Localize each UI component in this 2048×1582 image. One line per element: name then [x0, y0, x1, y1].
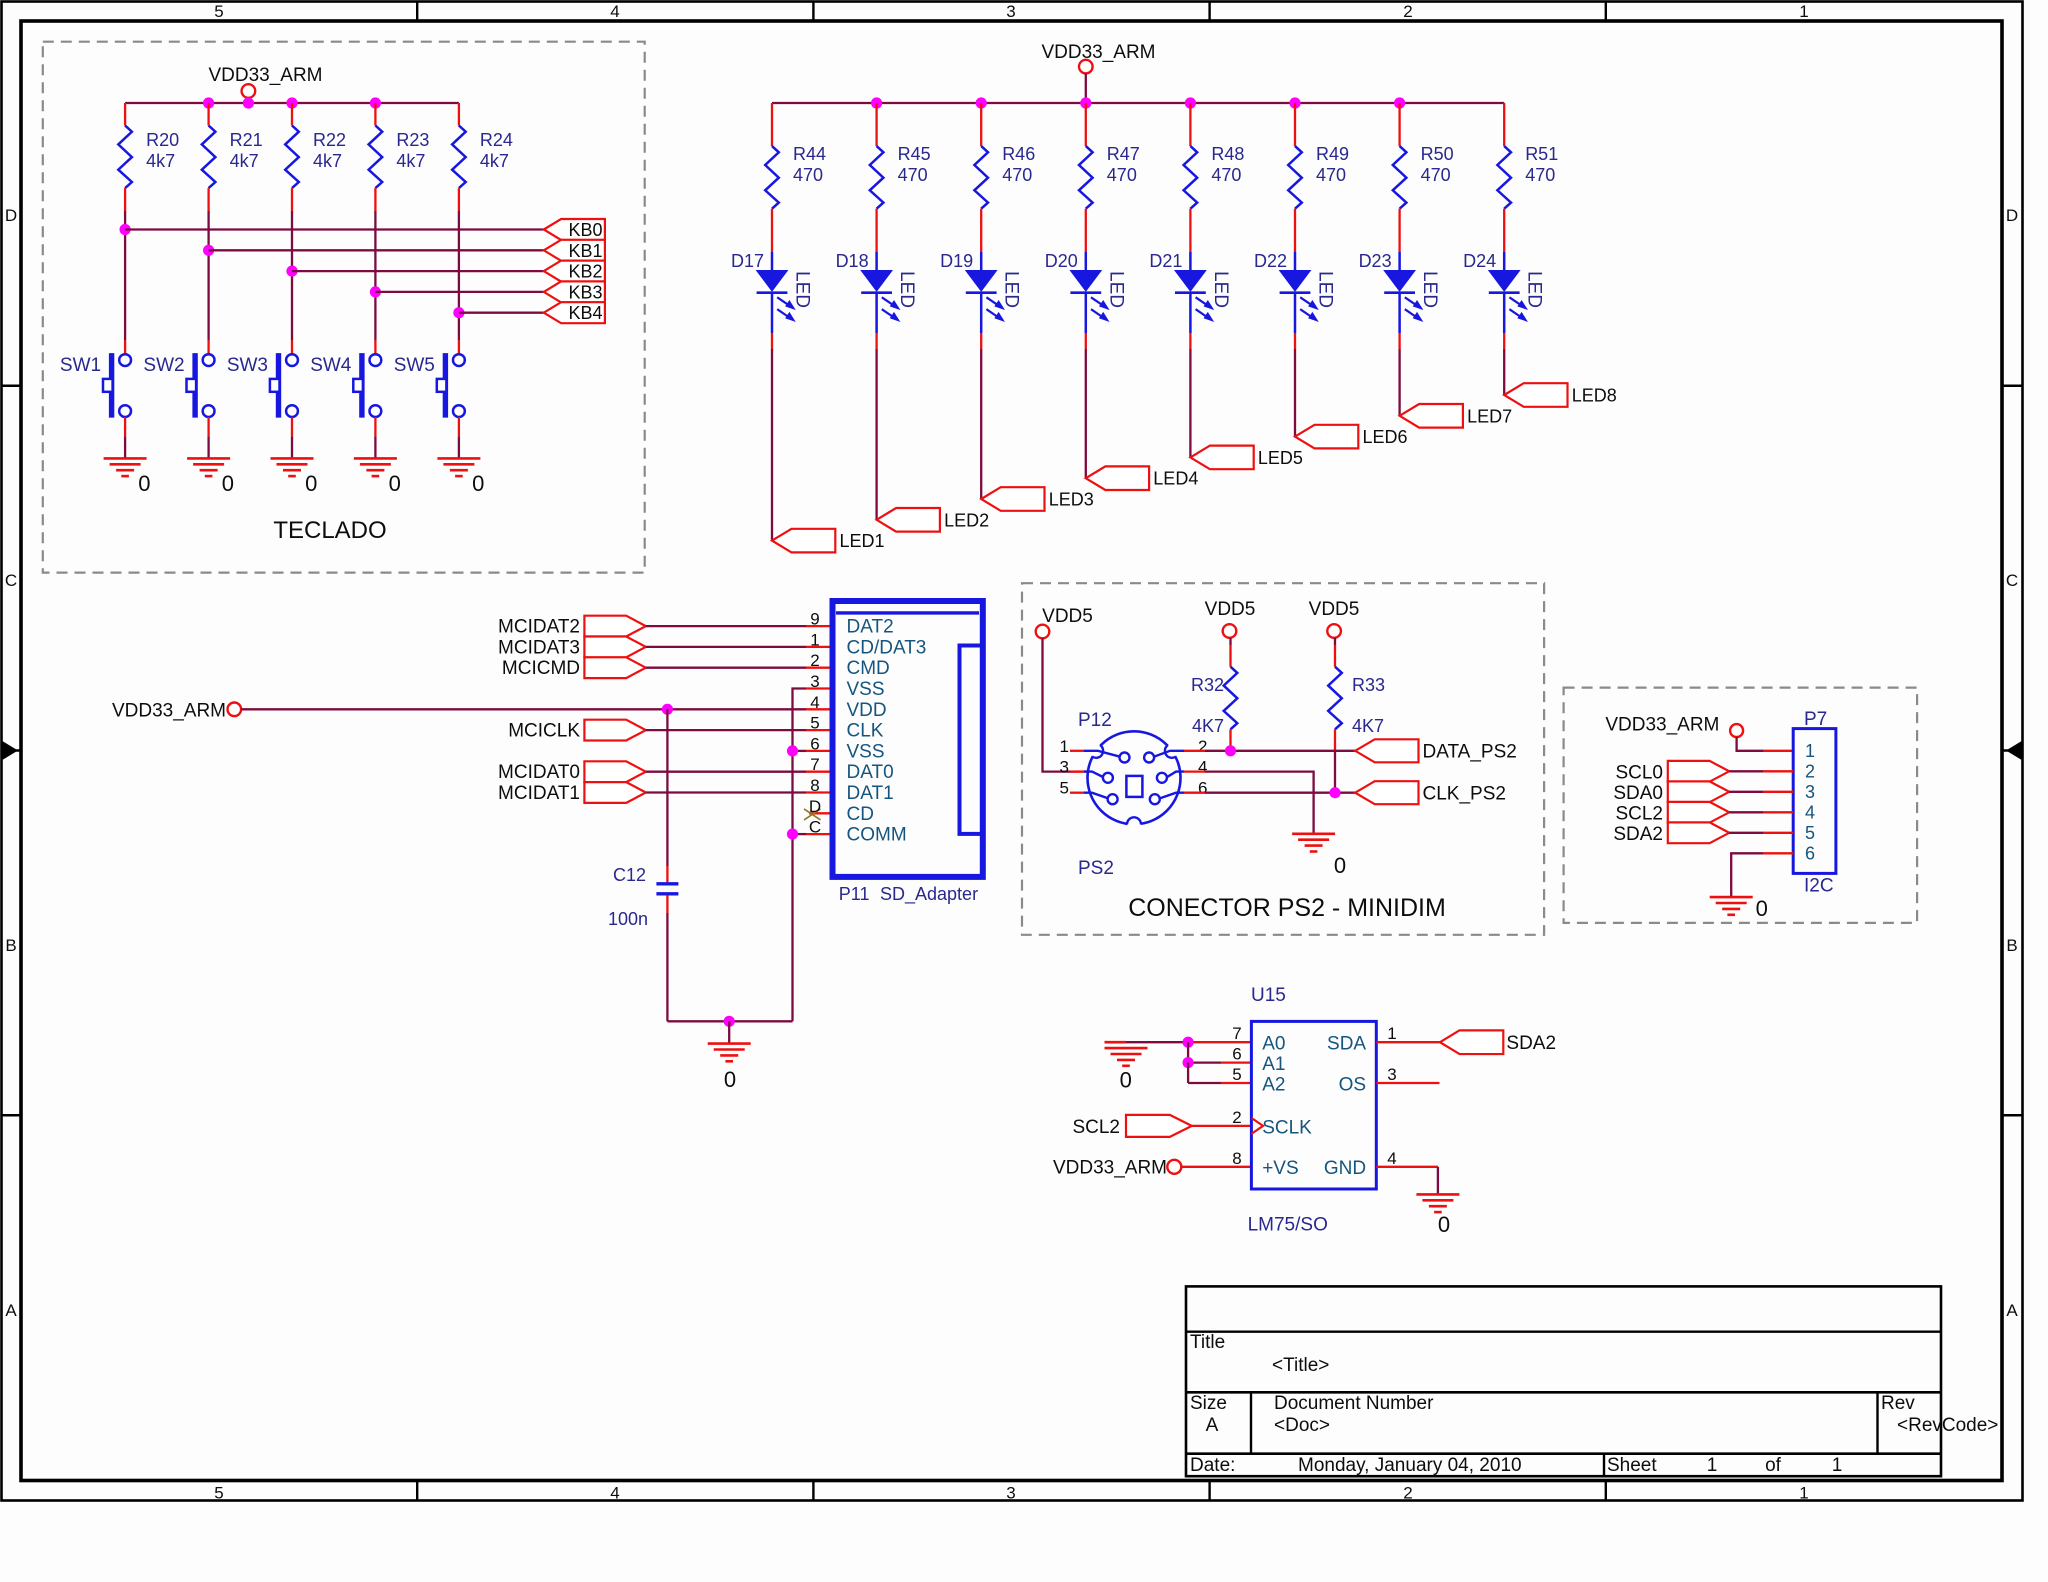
wire D20 to flag — [1085, 333, 1087, 349]
wire COMM pinC — [806, 833, 833, 835]
svg-text:LED6: LED6 — [1363, 427, 1408, 447]
wire stub R51 top — [1503, 103, 1505, 146]
svg-text:470: 470 — [1525, 165, 1555, 185]
svg-text:5: 5 — [1232, 1065, 1241, 1084]
svg-text:P12: P12 — [1078, 710, 1112, 731]
svg-text:KB1: KB1 — [568, 241, 602, 261]
net flag KB1 — [544, 240, 605, 261]
wire SW4 to ground — [374, 417, 376, 436]
svg-text:1: 1 — [1805, 741, 1815, 761]
svg-text:4K7: 4K7 — [1192, 716, 1224, 736]
svg-text:SW2: SW2 — [143, 355, 184, 376]
svg-text:DATA_PS2: DATA_PS2 — [1423, 742, 1517, 763]
wire SDA2 to P7 — [1729, 832, 1763, 834]
svg-text:DAT1: DAT1 — [847, 783, 894, 804]
ground — [1416, 1193, 1459, 1196]
svg-text:Date:: Date: — [1190, 1455, 1235, 1476]
resistor R45 — [870, 146, 884, 209]
junction — [243, 97, 254, 108]
svg-text:A0: A0 — [1262, 1034, 1285, 1055]
wire stub CD pinD — [809, 812, 833, 814]
svg-text:2: 2 — [1403, 2, 1412, 21]
wire SW5 to ground — [458, 417, 460, 436]
wire net KB2 — [292, 270, 544, 272]
svg-text:SW1: SW1 — [60, 355, 101, 376]
svg-text:0: 0 — [389, 471, 401, 496]
svg-text:D20: D20 — [1045, 251, 1078, 271]
svg-text:4K7: 4K7 — [1352, 716, 1384, 736]
svg-text:Size: Size — [1190, 1393, 1227, 1414]
svg-text:1: 1 — [810, 630, 819, 649]
svg-text:VDD33_ARM: VDD33_ARM — [1053, 1158, 1167, 1179]
wire R47 to D20 — [1085, 209, 1087, 252]
svg-text:R24: R24 — [480, 130, 513, 150]
junction node KB1 — [203, 245, 214, 256]
svg-text:SDA0: SDA0 — [1613, 783, 1663, 804]
svg-text:SCL2: SCL2 — [1072, 1117, 1120, 1138]
svg-text:A: A — [5, 1301, 17, 1320]
svg-text:0: 0 — [222, 471, 234, 496]
svg-text:R44: R44 — [793, 144, 826, 164]
svg-text:LED: LED — [1315, 271, 1336, 308]
junction — [1080, 97, 1091, 108]
wire VDD5 to P12 pin3 — [1043, 638, 1076, 771]
wire SDA to flag — [1376, 1041, 1440, 1043]
svg-text:470: 470 — [1421, 165, 1451, 185]
wire net KB3 — [375, 291, 543, 293]
svg-text:DAT0: DAT0 — [847, 762, 894, 783]
wire R44 to D17 — [771, 209, 773, 252]
svg-text:100n: 100n — [608, 909, 648, 929]
junction — [1329, 787, 1340, 798]
junction — [662, 704, 673, 715]
wire R32 to DATA_PS2 — [1229, 729, 1231, 751]
svg-text:VDD5: VDD5 — [1309, 599, 1360, 620]
svg-text:3: 3 — [1006, 1484, 1015, 1503]
net flag LED3 — [981, 487, 1044, 511]
wire D23 to flag — [1398, 333, 1400, 349]
wire OS stub — [1376, 1082, 1439, 1084]
net flag LED4 — [1086, 466, 1149, 490]
resistor R22 — [285, 126, 299, 189]
svg-text:P11: P11 — [839, 884, 870, 904]
junction — [724, 1016, 735, 1027]
svg-text:4k7: 4k7 — [396, 151, 425, 171]
svg-text:4: 4 — [610, 2, 619, 21]
wire stub R48 top — [1189, 103, 1191, 146]
wire stub — [1070, 792, 1084, 794]
wire stub R50 top — [1398, 103, 1400, 146]
svg-text:VDD33_ARM: VDD33_ARM — [1605, 715, 1719, 736]
svg-text:5: 5 — [214, 2, 223, 21]
svg-text:VSS: VSS — [847, 741, 885, 762]
svg-text:MCIDAT2: MCIDAT2 — [498, 617, 580, 638]
svg-text:4: 4 — [1387, 1149, 1396, 1168]
junction — [1225, 745, 1236, 756]
svg-text:A1: A1 — [1262, 1054, 1285, 1075]
svg-text:Sheet: Sheet — [1607, 1455, 1657, 1476]
svg-text:MCIDAT1: MCIDAT1 — [498, 783, 580, 804]
wire MCIDAT0 to P11 pin7 — [646, 771, 806, 773]
junction — [976, 97, 987, 108]
junction — [203, 97, 214, 108]
svg-text:8: 8 — [810, 776, 819, 795]
wire GND to ground — [1376, 1166, 1438, 1168]
wire ground stub — [728, 1021, 730, 1043]
svg-text:0: 0 — [1120, 1068, 1132, 1093]
wire stub — [1070, 770, 1084, 772]
svg-text:VDD: VDD — [847, 700, 887, 721]
resistor R44 — [765, 146, 779, 209]
svg-text:A2: A2 — [1262, 1074, 1285, 1095]
wire R45 to D18 — [875, 209, 877, 252]
wire stub R46 top — [980, 103, 982, 146]
wire stub R47 top — [1085, 103, 1087, 146]
svg-text:A: A — [2006, 1301, 2018, 1320]
resistor R48 — [1184, 146, 1198, 209]
net flag DATA_PS2 — [1355, 739, 1418, 762]
junction — [1289, 97, 1300, 108]
ground — [1710, 896, 1753, 899]
net flag CLK_PS2 — [1355, 781, 1418, 804]
wire VDD33_ARM to P11 pin4 — [241, 708, 806, 710]
svg-text:LED: LED — [1001, 271, 1022, 308]
svg-text:LED: LED — [1524, 271, 1545, 308]
svg-text:470: 470 — [898, 165, 928, 185]
resistor R33 — [1334, 638, 1336, 646]
wire net DATA_PS2 — [1205, 750, 1355, 752]
svg-text:4: 4 — [1198, 758, 1207, 777]
net flag KB2 — [544, 261, 605, 282]
wire net KB4 — [459, 312, 544, 314]
junction — [1183, 1057, 1194, 1068]
junction node KB4 — [453, 307, 464, 318]
svg-text:470: 470 — [1316, 165, 1346, 185]
wire net KB1 — [209, 249, 544, 251]
resistor R23 — [369, 126, 383, 189]
svg-text:LM75/SO: LM75/SO — [1248, 1215, 1328, 1236]
svg-text:1: 1 — [1387, 1024, 1396, 1043]
wire stub R22 top — [291, 103, 293, 126]
svg-text:VDD33_ARM: VDD33_ARM — [208, 65, 322, 86]
wire R46 to D19 — [980, 209, 982, 252]
svg-text:CMD: CMD — [847, 658, 890, 679]
net flag LED7 — [1400, 404, 1463, 428]
svg-text:SDA: SDA — [1327, 1034, 1366, 1055]
wire R33 to CLK_PS2 — [1334, 729, 1336, 750]
wire stub R45 top — [875, 103, 877, 146]
svg-text:LED8: LED8 — [1572, 386, 1617, 406]
svg-text:PS2: PS2 — [1078, 858, 1114, 879]
svg-text:VDD5: VDD5 — [1205, 599, 1256, 620]
resistor R50 — [1393, 146, 1407, 209]
junction — [1183, 1037, 1194, 1048]
no-connect X on pin D — [804, 809, 821, 820]
resistor R49 — [1288, 146, 1302, 209]
svg-text:SW5: SW5 — [394, 355, 435, 376]
svg-text:LED: LED — [792, 271, 813, 308]
svg-text:VDD33_ARM: VDD33_ARM — [112, 700, 226, 721]
svg-text:3: 3 — [1805, 782, 1815, 802]
svg-text:6: 6 — [1198, 779, 1207, 798]
svg-text:3: 3 — [1387, 1065, 1396, 1084]
svg-text:R45: R45 — [898, 144, 931, 164]
wire P7 pin6 to ground — [1763, 852, 1793, 854]
svg-text:1: 1 — [1799, 2, 1808, 21]
net flag LED8 — [1504, 383, 1567, 407]
wire D22 to flag — [1294, 333, 1296, 349]
PS2 block outline — [1022, 583, 1544, 935]
svg-text:P7: P7 — [1804, 709, 1827, 730]
svg-text:LED1: LED1 — [840, 531, 885, 551]
TECLADO block outline — [43, 42, 645, 573]
svg-text:LED7: LED7 — [1467, 406, 1512, 426]
svg-text:R50: R50 — [1421, 144, 1454, 164]
svg-text:SW3: SW3 — [227, 355, 268, 376]
wire VDD33_ARM bus — [125, 102, 459, 104]
wire R21 to SW2 — [207, 188, 209, 211]
wire MCICLK to P11 pin5 — [646, 729, 806, 731]
svg-text:GND: GND — [1324, 1158, 1366, 1179]
svg-text:TECLADO: TECLADO — [273, 517, 386, 544]
svg-text:4: 4 — [1805, 802, 1815, 822]
wire VSS pin6 — [806, 750, 833, 752]
svg-text:<RevCode>: <RevCode> — [1897, 1415, 1998, 1436]
svg-text:470: 470 — [1211, 165, 1241, 185]
svg-text:CLK_PS2: CLK_PS2 — [1423, 783, 1506, 804]
wire D24 to flag — [1503, 333, 1505, 349]
ground — [437, 457, 480, 460]
svg-text:Title: Title — [1190, 1332, 1225, 1353]
svg-text:CONECTOR PS2 - MINIDIM: CONECTOR PS2 - MINIDIM — [1128, 894, 1446, 922]
resistor R20 — [118, 126, 132, 189]
svg-text:R23: R23 — [396, 130, 429, 150]
svg-text:0: 0 — [1334, 853, 1346, 878]
svg-text:9: 9 — [810, 610, 819, 629]
svg-text:5: 5 — [810, 714, 819, 733]
svg-text:470: 470 — [1107, 165, 1137, 185]
svg-text:6: 6 — [810, 734, 819, 753]
wire D17 to flag — [771, 333, 773, 349]
wire SW3 to ground — [291, 417, 293, 436]
wire MCICMD to P11 pin2 — [646, 667, 806, 669]
svg-text:R49: R49 — [1316, 144, 1349, 164]
resistor R46 — [974, 146, 988, 209]
junction node KB2 — [286, 266, 297, 277]
wire VSS pin3 to vertical — [806, 687, 833, 689]
svg-text:D21: D21 — [1149, 251, 1182, 271]
wire R51 to D24 — [1503, 209, 1505, 252]
svg-text:4k7: 4k7 — [480, 151, 509, 171]
svg-text:0: 0 — [305, 471, 317, 496]
ground — [271, 457, 314, 460]
svg-text:R46: R46 — [1002, 144, 1035, 164]
wire R24 to SW5 — [458, 188, 460, 211]
wire P12 pin4 to ground — [1205, 772, 1314, 834]
svg-text:KB4: KB4 — [568, 303, 602, 323]
svg-text:8: 8 — [1232, 1149, 1241, 1168]
svg-text:LED4: LED4 — [1153, 469, 1198, 489]
svg-text:4: 4 — [810, 693, 819, 712]
svg-text:+VS: +VS — [1262, 1158, 1298, 1179]
svg-text:R21: R21 — [230, 130, 263, 150]
svg-text:6: 6 — [1232, 1045, 1241, 1064]
ground — [1292, 832, 1335, 835]
svg-text:3: 3 — [1060, 758, 1069, 777]
svg-text:LED: LED — [1419, 271, 1440, 308]
svg-text:0: 0 — [138, 471, 150, 496]
svg-text:D18: D18 — [836, 251, 869, 271]
net flag KB3 — [544, 281, 605, 302]
svg-text:R48: R48 — [1211, 144, 1244, 164]
wire SCL0 to P7 — [1729, 770, 1763, 772]
svg-text:KB3: KB3 — [568, 282, 602, 302]
wire stub R49 top — [1294, 103, 1296, 146]
net flag KB4 — [544, 302, 605, 323]
ground — [104, 457, 147, 460]
svg-text:LED3: LED3 — [1049, 490, 1094, 510]
svg-text:VDD5: VDD5 — [1042, 606, 1093, 627]
wire stub R20 top — [124, 103, 126, 126]
wire stub — [1070, 750, 1084, 752]
svg-text:LED: LED — [1210, 271, 1231, 308]
svg-text:KB2: KB2 — [568, 262, 602, 282]
svg-text:2: 2 — [1403, 1484, 1412, 1503]
svg-text:470: 470 — [793, 165, 823, 185]
wire stub — [1184, 750, 1205, 752]
wire VDD33_ARM led bus — [772, 102, 1504, 104]
svg-text:VSS: VSS — [847, 679, 885, 700]
junction — [871, 97, 882, 108]
svg-text:D: D — [2006, 206, 2018, 225]
wire R23 to SW4 — [374, 188, 376, 211]
svg-text:R32: R32 — [1191, 675, 1224, 695]
wire net KB0 — [125, 228, 544, 230]
wire stub R23 top — [374, 103, 376, 126]
wire R50 to D23 — [1398, 209, 1400, 252]
svg-text:D17: D17 — [731, 251, 764, 271]
I2C block outline — [1564, 688, 1918, 923]
svg-text:5: 5 — [214, 1484, 223, 1503]
svg-text:SCL2: SCL2 — [1615, 803, 1663, 824]
svg-text:MCIDAT3: MCIDAT3 — [498, 637, 580, 658]
svg-text:5: 5 — [1805, 823, 1815, 843]
resistor R32 — [1229, 638, 1231, 646]
wire ground to A0 — [1126, 1041, 1188, 1043]
wire VDD33_ARM to P7 pin1 — [1737, 737, 1763, 751]
svg-text:2: 2 — [1198, 737, 1207, 756]
svg-text:SD_Adapter: SD_Adapter — [880, 884, 978, 905]
svg-text:SDA2: SDA2 — [1613, 824, 1663, 845]
svg-text:4k7: 4k7 — [313, 151, 342, 171]
svg-text:MCICLK: MCICLK — [508, 721, 580, 742]
wire R20 to SW1 — [124, 188, 126, 211]
svg-text:C12: C12 — [613, 865, 646, 885]
wire VDD33_ARM to +VS — [1181, 1166, 1251, 1168]
resistor R24 — [452, 126, 466, 189]
svg-text:SDA2: SDA2 — [1506, 1033, 1556, 1054]
svg-text:D22: D22 — [1254, 251, 1287, 271]
wire stub R24 top — [458, 103, 460, 126]
svg-text:6: 6 — [1805, 843, 1815, 863]
ground — [708, 1042, 751, 1045]
wire D18 to flag — [875, 333, 877, 349]
svg-text:Rev: Rev — [1881, 1393, 1915, 1414]
svg-text:7: 7 — [1232, 1024, 1241, 1043]
svg-text:R20: R20 — [146, 130, 179, 150]
svg-text:D: D — [809, 797, 821, 816]
wire ground run — [667, 1020, 792, 1022]
svg-text:LED5: LED5 — [1258, 448, 1303, 468]
wire stub — [1184, 792, 1205, 794]
svg-text:R51: R51 — [1525, 144, 1558, 164]
ground — [187, 457, 230, 460]
svg-text:1: 1 — [1707, 1455, 1718, 1476]
junction node KB3 — [370, 286, 381, 297]
junction node KB0 — [120, 224, 131, 235]
svg-text:MCIDAT0: MCIDAT0 — [498, 762, 580, 783]
svg-text:3: 3 — [810, 672, 819, 691]
connector P11 SD_Adapter — [833, 601, 983, 877]
wire A1 branch — [1187, 1042, 1189, 1062]
svg-text:MCICMD: MCICMD — [502, 658, 580, 679]
title block — [1186, 1286, 1941, 1476]
wire net CLK_PS2 — [1205, 792, 1355, 794]
wire R22 to SW3 — [291, 188, 293, 211]
junction — [1394, 97, 1405, 108]
svg-text:SCL0: SCL0 — [1615, 762, 1663, 783]
svg-text:U15: U15 — [1251, 985, 1286, 1006]
svg-text:5: 5 — [1060, 779, 1069, 798]
wire A2 branch — [1187, 1063, 1189, 1083]
wire stub — [1184, 770, 1205, 772]
svg-text:D23: D23 — [1359, 251, 1392, 271]
svg-text:I2C: I2C — [1804, 876, 1834, 897]
resistor R51 — [1497, 146, 1511, 209]
wire SCL2 to SCLK — [1192, 1125, 1252, 1127]
svg-text:0: 0 — [1438, 1212, 1450, 1237]
svg-text:CD/DAT3: CD/DAT3 — [847, 637, 927, 658]
svg-text:1: 1 — [1060, 737, 1069, 756]
svg-text:B: B — [2006, 936, 2017, 955]
svg-text:4k7: 4k7 — [146, 151, 175, 171]
net flag SDA2 (u15) — [1440, 1030, 1503, 1054]
wire D19 to flag — [980, 333, 982, 349]
svg-text:C: C — [5, 571, 17, 590]
svg-text:2: 2 — [1805, 761, 1815, 781]
ground — [354, 457, 397, 460]
wire R48 to D21 — [1189, 209, 1191, 252]
junction — [787, 745, 798, 756]
svg-text:R33: R33 — [1352, 675, 1385, 695]
wire MCIDAT3 to P11 pin1 — [646, 646, 806, 648]
svg-text:of: of — [1765, 1455, 1782, 1476]
svg-text:1: 1 — [1799, 1484, 1808, 1503]
resistor R21 — [202, 126, 216, 189]
svg-text:D24: D24 — [1463, 251, 1496, 271]
svg-text:CLK: CLK — [847, 721, 884, 742]
svg-text:OS: OS — [1339, 1074, 1366, 1095]
svg-text:SCLK: SCLK — [1262, 1117, 1312, 1138]
svg-text:LED: LED — [1105, 271, 1126, 308]
svg-text:2: 2 — [810, 651, 819, 670]
junction — [1185, 97, 1196, 108]
wire stub R44 top — [771, 103, 773, 146]
wire SW2 to ground — [207, 417, 209, 436]
wire D21 to flag — [1189, 333, 1191, 349]
svg-text:1: 1 — [1832, 1455, 1843, 1476]
svg-text:D19: D19 — [940, 251, 973, 271]
